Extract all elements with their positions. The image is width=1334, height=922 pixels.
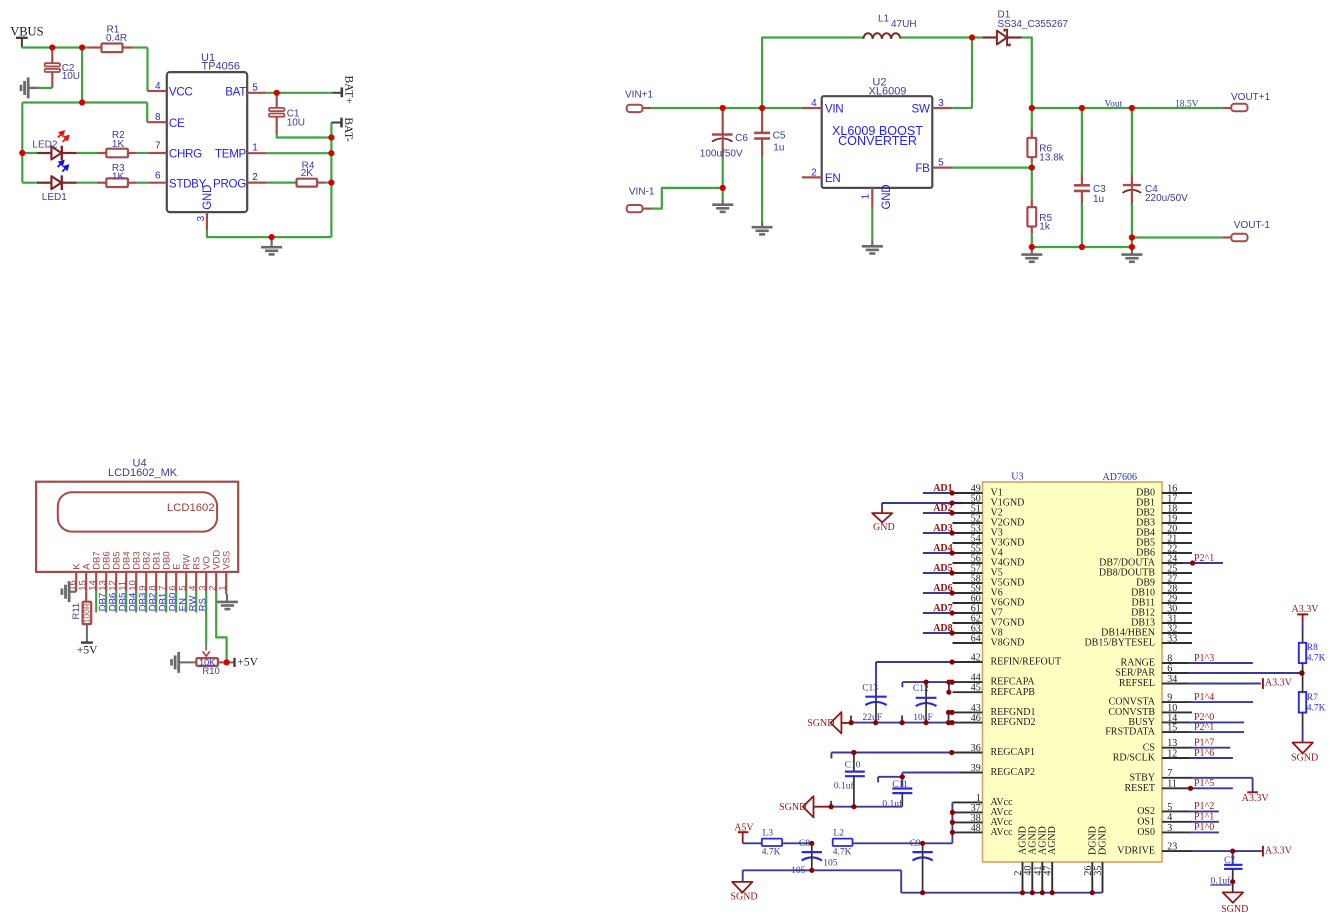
U3 pin 46 REFGND2 xyxy=(953,713,1036,728)
svg-text:RESET: RESET xyxy=(1124,783,1155,794)
wire VBUS to CE rail xyxy=(81,48,83,103)
wire net DB5 at U4 pin 12 xyxy=(115,592,117,613)
wire GND pin to right rail xyxy=(207,230,332,237)
node junction at 22.3,153.0 xyxy=(19,150,25,156)
capacitor C3 xyxy=(1074,108,1106,247)
node junction at 276.7,92.8 xyxy=(274,90,280,96)
wire to CE pin 8 xyxy=(146,103,148,123)
svg-text:A3.3V: A3.3V xyxy=(1242,793,1270,804)
wire L3 to C8 xyxy=(782,842,812,844)
net VBUS power flag xyxy=(10,25,43,48)
svg-text:48: 48 xyxy=(971,823,981,834)
U3 pin 34 REFSEL xyxy=(1119,674,1192,689)
wire net AD2 xyxy=(923,512,952,514)
svg-text:SGND: SGND xyxy=(730,891,757,902)
svg-text:P1^3: P1^3 xyxy=(1194,653,1214,664)
svg-text:2: 2 xyxy=(252,172,258,183)
svg-text:SER/PAR: SER/PAR xyxy=(1115,668,1155,679)
node junction at 1192.6,563 xyxy=(1190,560,1195,565)
node junction at 1052.2,892.7 xyxy=(1050,890,1055,895)
ground at C5 xyxy=(752,222,773,235)
node junction at 952.1,712.4 xyxy=(950,710,955,715)
U3 pin 49 V1 xyxy=(953,483,1003,498)
node junction at 952.1,533 xyxy=(950,530,955,535)
svg-text:23: 23 xyxy=(1167,842,1177,853)
svg-text:1u: 1u xyxy=(773,143,784,154)
U3 pin 52 V2GND xyxy=(953,513,1025,528)
U3 pin 25 DB8/DOUTB xyxy=(1099,563,1192,578)
wire R1 to VCC pin 4 xyxy=(146,48,148,92)
svg-text:2: 2 xyxy=(811,167,817,178)
node junction at 952.1,593 xyxy=(950,590,955,595)
U2 pin 2 EN xyxy=(802,167,841,185)
capacitor C2 xyxy=(45,49,80,88)
svg-text:45: 45 xyxy=(971,683,981,694)
wire R10 to +5V xyxy=(218,661,227,663)
node junction at 1031.8,108.0 xyxy=(1029,105,1035,111)
power A3.3V at REFSEL xyxy=(1263,678,1293,689)
wire net DB6 at U4 pin 13 xyxy=(105,592,107,613)
svg-text:TP4056: TP4056 xyxy=(202,60,241,72)
svg-text:U3: U3 xyxy=(1011,471,1023,482)
wire REFGND1 to rail xyxy=(948,712,950,722)
U3 pin 60 V6GND xyxy=(953,593,1025,608)
svg-text:REGCAP2: REGCAP2 xyxy=(991,767,1035,778)
wire net P2^1 at pin 24 xyxy=(1183,562,1223,564)
svg-text:15: 15 xyxy=(1167,723,1177,734)
node junction at 1190.5,788.3 xyxy=(1188,786,1193,791)
node junction at 851.2,722.6 xyxy=(849,720,854,725)
wire at pin 15 xyxy=(1189,731,1244,733)
svg-text:PROG: PROG xyxy=(213,177,246,190)
wire REFIN/REFOUT to C13 xyxy=(876,662,952,690)
svg-text:VIN-1: VIN-1 xyxy=(629,187,655,198)
node junction at 226.6,662.4 xyxy=(224,659,230,665)
wire VIN- to C6 bottom xyxy=(652,188,723,209)
svg-text:R8: R8 xyxy=(1307,643,1318,653)
U3 pin 40 AGND xyxy=(1023,826,1039,893)
wire LED2 to R2 xyxy=(77,152,97,154)
svg-text:FRSTDATA: FRSTDATA xyxy=(1105,727,1156,738)
node junction at 951.7,752.5 xyxy=(949,750,954,755)
LED LED2 xyxy=(22,140,76,161)
svg-text:BAT: BAT xyxy=(225,86,246,99)
U4 pin 10 DB3 xyxy=(128,551,143,591)
resistor R11 xyxy=(71,592,92,624)
node junction at 926.1,682.1 xyxy=(924,680,929,685)
node junction at 922.6,843.3 xyxy=(920,841,925,846)
U4 pin 6 E xyxy=(168,563,183,591)
wire at pin 5 xyxy=(1189,810,1219,812)
node junction at 811.8,843.3 xyxy=(809,841,814,846)
U3 pin 56 V4GND xyxy=(953,553,1025,568)
wire net AD1 xyxy=(923,492,952,494)
ground SGND at divider xyxy=(1291,743,1318,764)
svg-text:10uF: 10uF xyxy=(913,713,933,723)
svg-text:FB: FB xyxy=(915,162,930,175)
node junction at 1131.9,247.0 xyxy=(1129,244,1135,250)
LED1 blue light arrows xyxy=(58,161,69,172)
U3 pin 57 V5 xyxy=(953,563,1003,578)
U4 pin 4 RS xyxy=(188,557,203,592)
svg-text:Vout: Vout xyxy=(1105,99,1123,109)
power A3.3V at VDRIVE xyxy=(1263,846,1293,857)
node junction at 762.1,108.0 xyxy=(759,105,765,111)
wire REFCAPA net xyxy=(902,682,949,692)
svg-text:18.5V: 18.5V xyxy=(1175,99,1199,109)
svg-text:64: 64 xyxy=(971,633,981,644)
resistor R3 xyxy=(97,163,137,187)
inductor L1 xyxy=(863,14,916,39)
ground at U1 xyxy=(261,237,282,254)
U2 pin 4 VIN xyxy=(802,98,843,116)
svg-text:8: 8 xyxy=(155,112,161,123)
svg-text:VBUS: VBUS xyxy=(10,25,43,39)
wire net AD4 xyxy=(923,552,952,554)
display U4 LCD1602_MK body xyxy=(36,458,238,572)
svg-text:1K: 1K xyxy=(112,139,125,150)
node junction at 875.7,722.6 xyxy=(873,720,878,725)
svg-text:P2^1: P2^1 xyxy=(1194,553,1214,564)
wire at pin 4 xyxy=(1189,821,1219,823)
U4 pin 15 A xyxy=(78,563,93,592)
svg-text:P1^0: P1^0 xyxy=(1194,822,1214,833)
U3 pin 21 DB5 xyxy=(1136,533,1192,548)
wire VOUT- row xyxy=(1132,236,1222,238)
svg-text:5: 5 xyxy=(1167,802,1172,813)
node junction at 1022.5,892.7 xyxy=(1020,890,1025,895)
U3 pin 28 DB10 xyxy=(1131,583,1192,598)
wire BAT to BAT+ xyxy=(266,92,332,94)
U3 pin 4 OS1 xyxy=(1137,812,1192,827)
capacitor C13 xyxy=(862,684,886,723)
U1 pin 8 CE xyxy=(147,112,185,130)
node junction at 1081.9,247.0 xyxy=(1079,244,1085,250)
node junction at 831.1,806.7 xyxy=(829,804,834,809)
svg-text:SW: SW xyxy=(912,102,930,115)
svg-text:34: 34 xyxy=(1167,674,1177,685)
svg-text:100R: 100R xyxy=(82,603,92,623)
node junction at 1032.3,892.7 xyxy=(1030,890,1035,895)
ground SGND at C7 xyxy=(1221,882,1248,915)
svg-text:VDRIVE: VDRIVE xyxy=(1117,846,1155,857)
chip U3 AD7606 body xyxy=(983,471,1163,862)
capacitor C9 xyxy=(910,839,933,893)
svg-text:22uF: 22uF xyxy=(863,713,883,723)
potentiometer R10 wiper arrow xyxy=(203,651,210,656)
U1 pin 4 VCC xyxy=(148,81,193,99)
svg-text:C12: C12 xyxy=(913,684,929,694)
wire left LED rail xyxy=(21,103,23,183)
wire LED1 to R3 xyxy=(77,182,97,184)
node junction at 948.5,712.4 xyxy=(946,710,951,715)
node junction at 952.1,503 xyxy=(950,500,955,505)
node junction at 722.7,187.9 xyxy=(720,185,726,191)
wire at pin 3 xyxy=(1189,831,1219,833)
power flag BAT- xyxy=(331,117,354,142)
node junction at 82.1,102.5 xyxy=(79,99,85,105)
U3 pin 55 V4 xyxy=(953,543,1003,558)
wire U2 GND to ground xyxy=(871,207,873,241)
wire STBY to A3.3V xyxy=(1189,778,1253,792)
U3 pin 35 DGND xyxy=(1093,826,1109,893)
wire net DB7 at U4 pin 14 xyxy=(95,592,97,613)
svg-text:13.8k: 13.8k xyxy=(1039,152,1064,163)
U3 pin 26 DGND xyxy=(1083,826,1099,893)
LED2 red light arrows xyxy=(58,131,69,142)
node junction at 922.6,892.7 xyxy=(920,890,925,895)
diode D1 SS34 xyxy=(982,10,1068,46)
wire SGND bottom rail xyxy=(743,866,1103,893)
svg-text:CONVERTER: CONVERTER xyxy=(838,134,917,148)
U3 pin 32 DB14/HBEN xyxy=(1101,623,1192,638)
resistor R4 xyxy=(267,160,332,186)
svg-text:STBY: STBY xyxy=(1129,772,1155,783)
svg-text:AVcc: AVcc xyxy=(991,827,1014,838)
svg-text:EN: EN xyxy=(825,172,841,185)
wire net DB1 at U4 pin 8 xyxy=(155,592,157,613)
svg-text:VOUT-1: VOUT-1 xyxy=(1234,220,1271,231)
U3 pin 15 FRSTDATA xyxy=(1105,723,1192,738)
wire net RW at U4 pin 5 xyxy=(185,592,187,613)
svg-text:0.1uf: 0.1uf xyxy=(834,781,855,792)
node junction at 952.1,722.6 xyxy=(950,720,955,725)
U4 pin 16 K xyxy=(68,563,83,592)
svg-text:R11: R11 xyxy=(71,603,82,620)
node junction at 1131.9,108.0 xyxy=(1129,105,1135,111)
U3 pin 41 AGND xyxy=(1033,826,1049,893)
node junction at 82.1,47.5 xyxy=(79,44,85,50)
svg-text:6: 6 xyxy=(155,170,161,181)
U1 pin 1 TEMP xyxy=(215,143,267,161)
svg-text:VIN+1: VIN+1 xyxy=(625,90,654,101)
svg-text:36: 36 xyxy=(971,743,981,754)
U3 pin 53 V3 xyxy=(953,523,1003,538)
svg-text:3: 3 xyxy=(196,215,207,221)
node junction at 952.1,553 xyxy=(950,550,955,555)
U3 pin 22 DB6 xyxy=(1136,543,1192,558)
U3 pin 48 AVcc xyxy=(953,823,1014,838)
wire C2 to ground xyxy=(38,87,53,89)
U3 pin 17 DB1 xyxy=(1136,493,1192,508)
capacitor C4 xyxy=(1123,108,1189,247)
ground SGND bottom left xyxy=(730,870,757,902)
svg-text:GND: GND xyxy=(873,522,895,533)
svg-text:0.4R: 0.4R xyxy=(106,33,127,44)
U1 pin 5 BAT xyxy=(225,82,266,98)
wire VDRIVE to A3.3V xyxy=(1192,850,1263,852)
ground at C4 xyxy=(1121,247,1142,262)
svg-text:5: 5 xyxy=(252,82,258,93)
wire right rail xyxy=(330,138,332,238)
wire C9 to AVcc xyxy=(923,842,953,844)
U3 pin 1 AVcc xyxy=(953,793,1014,808)
svg-text:P1^4: P1^4 xyxy=(1194,692,1214,703)
wire L1 to D1 xyxy=(900,36,982,38)
LED LED1 xyxy=(22,175,76,202)
U3 pin 9 CONVSTA xyxy=(1109,693,1192,708)
svg-text:10U: 10U xyxy=(62,71,80,82)
svg-text:P1^1: P1^1 xyxy=(1194,812,1214,823)
svg-text:1: 1 xyxy=(252,143,258,154)
svg-text:DB15/BYTESEL: DB15/BYTESEL xyxy=(1084,638,1155,649)
U3 pin 33 DB15/BYTESEL xyxy=(1084,633,1192,648)
chip U2 XL6009 body xyxy=(822,76,933,188)
chip U1 TP4056 body xyxy=(167,52,247,212)
svg-text:DGND: DGND xyxy=(1098,826,1109,855)
ground SGND at REGCAP rail xyxy=(779,796,831,817)
capacitor C1 xyxy=(269,94,305,134)
svg-text:OS2: OS2 xyxy=(1137,806,1155,817)
svg-text:REFIN/REFOUT: REFIN/REFOUT xyxy=(991,657,1062,668)
U4 pin 12 DB5 xyxy=(108,551,123,591)
wire at pin 12 xyxy=(1189,757,1233,759)
resistor R8 xyxy=(1299,622,1326,673)
node junction at 902.1,722.6 xyxy=(900,720,905,725)
node junction at 853.9,752.5 xyxy=(851,750,856,755)
wire at pin 11 xyxy=(1189,787,1233,789)
svg-text:42: 42 xyxy=(971,652,981,663)
svg-text:47: 47 xyxy=(1043,866,1054,876)
U3 pin 27 DB9 xyxy=(1136,573,1192,588)
capacitor C10 xyxy=(834,753,865,807)
resistor R7 xyxy=(1299,673,1326,743)
svg-text:P2^1: P2^1 xyxy=(1194,722,1214,733)
svg-text:4: 4 xyxy=(811,98,817,109)
svg-text:105: 105 xyxy=(791,866,806,876)
ferrite bead L3 xyxy=(762,829,782,858)
wire Vout rail xyxy=(1032,107,1223,109)
wire net DB0 at U4 pin 7 xyxy=(165,592,167,613)
svg-text:A3.3V: A3.3V xyxy=(1265,846,1293,857)
node junction at 1042.3,892.7 xyxy=(1040,890,1045,895)
U3 pin 18 DB2 xyxy=(1136,503,1192,518)
svg-text:R10: R10 xyxy=(202,666,219,677)
U3 pin 19 DB3 xyxy=(1136,513,1192,528)
wire net AD8 xyxy=(923,632,952,634)
U3 pin 44 REFCAPA xyxy=(953,673,1036,688)
svg-text:LCD1602: LCD1602 xyxy=(167,502,215,514)
svg-text:4.7K: 4.7K xyxy=(1307,654,1326,664)
wire net DB3 at U4 pin 10 xyxy=(135,592,137,613)
svg-text:35: 35 xyxy=(1093,866,1104,876)
svg-text:CE: CE xyxy=(169,117,185,130)
svg-text:+5V: +5V xyxy=(77,644,98,656)
wire D1 to Vout rail xyxy=(1022,38,1032,109)
U3 pin 62 V7GND xyxy=(953,613,1025,628)
svg-text:TEMP: TEMP xyxy=(215,148,247,161)
svg-text:VOUT+1: VOUT+1 xyxy=(1231,92,1271,103)
wire at pin 14 xyxy=(1189,721,1244,723)
port VIN+1 xyxy=(625,90,654,113)
svg-text:A3.3V: A3.3V xyxy=(1265,678,1293,689)
svg-text:1k: 1k xyxy=(1039,222,1051,233)
node junction at 1031.8,167.6 xyxy=(1029,165,1035,171)
U1 pin 3 GND xyxy=(196,185,214,230)
svg-text:7: 7 xyxy=(155,141,161,152)
node junction at 952.1,493 xyxy=(950,490,955,495)
svg-text:4.7K: 4.7K xyxy=(833,847,852,857)
ground GND symbol xyxy=(872,513,895,533)
svg-text:VSS: VSS xyxy=(222,551,233,570)
wire top loop to L1 xyxy=(762,38,863,109)
U4 pin 14 DB7 xyxy=(88,551,103,591)
svg-text:C6: C6 xyxy=(735,133,748,144)
wire C5 to ground xyxy=(761,157,763,222)
node junction at 1092.3,892.7 xyxy=(1090,890,1095,895)
svg-text:SGND: SGND xyxy=(779,802,806,813)
U3 pin 36 REGCAP1 xyxy=(953,743,1035,758)
node junction at 331.4,153.2 xyxy=(328,150,334,156)
node junction at 952.1,513 xyxy=(950,510,955,515)
svg-text:CHRG: CHRG xyxy=(169,148,202,161)
wire VIN+ rail xyxy=(652,107,802,109)
node junction at 952.4,812.4 xyxy=(950,810,955,815)
resistor R6 xyxy=(1027,108,1064,168)
svg-text:R7: R7 xyxy=(1307,693,1318,703)
svg-text:7: 7 xyxy=(1167,768,1172,779)
ground SGND at REFGND rail xyxy=(807,712,851,733)
U3 pin 14 BUSY xyxy=(1128,713,1192,728)
node junction at 948.5,722.6 xyxy=(946,720,951,725)
wire TEMP to right rail xyxy=(267,152,332,154)
wire net AD7 xyxy=(923,612,952,614)
U4 pin 2 VDD xyxy=(208,550,223,592)
svg-text:L1: L1 xyxy=(878,14,890,25)
ferrite bead L2 xyxy=(833,829,853,858)
U3 pin 12 RD/SCLK xyxy=(1113,748,1192,763)
U4 pin 11 DB4 xyxy=(118,551,133,591)
svg-text:RD/SCLK: RD/SCLK xyxy=(1113,753,1156,764)
svg-text:AGND: AGND xyxy=(1047,826,1058,855)
resistor R5 xyxy=(1027,168,1052,247)
svg-text:C13: C13 xyxy=(862,684,878,694)
svg-text:SGND: SGND xyxy=(807,718,834,729)
capacitor C5 xyxy=(754,109,786,157)
wire C6 ground stem xyxy=(722,188,724,199)
wire R2 to CHRG pin 7 xyxy=(137,152,149,154)
svg-text:REFGND2: REFGND2 xyxy=(991,717,1036,728)
svg-text:BAT+: BAT+ xyxy=(343,76,355,104)
U2 pin 1 GND xyxy=(861,185,893,210)
U3 pin 47 AGND xyxy=(1043,826,1059,893)
ground at C2 xyxy=(21,77,38,98)
node junction at 811.8,870.3 xyxy=(809,868,814,873)
wire SGND rail REFGND xyxy=(851,716,952,723)
U4 pin 1 VSS xyxy=(218,551,233,592)
U3 pin 59 V6 xyxy=(953,583,1003,598)
U4 pin 5 RW xyxy=(178,554,193,592)
power flag BAT+ xyxy=(332,76,354,104)
node junction at 1232.7,881.7 xyxy=(1230,879,1235,884)
U3 pin 29 DB11 xyxy=(1131,593,1192,608)
svg-text:GND: GND xyxy=(201,185,214,210)
svg-text:C8: C8 xyxy=(799,839,810,849)
U3 pin 13 CS xyxy=(1143,738,1192,753)
svg-text:AD7606: AD7606 xyxy=(1103,472,1137,483)
wire net AD3 xyxy=(923,532,952,534)
U1 pin 2 PROG xyxy=(213,172,267,190)
wire VDD to +5V node xyxy=(216,592,226,663)
U3 pin 16 DB0 xyxy=(1136,483,1192,498)
U3 pin 5 OS2 xyxy=(1137,802,1192,817)
U3 pin 7 STBY xyxy=(1129,768,1192,783)
U3 pin 54 V3GND xyxy=(953,533,1025,548)
wire VBUS rail xyxy=(22,46,148,48)
port VIN-1 xyxy=(627,187,655,213)
U3 pin 45 REFCAPB xyxy=(953,683,1036,698)
svg-text:5: 5 xyxy=(938,158,944,169)
